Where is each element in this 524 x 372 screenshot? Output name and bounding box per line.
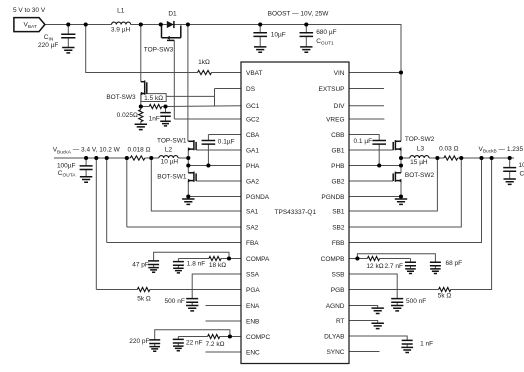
svg-text:680 µF: 680 µF bbox=[316, 29, 336, 36]
svg-text:0.018 Ω: 0.018 Ω bbox=[128, 147, 151, 154]
svg-text:ENB: ENB bbox=[246, 318, 259, 325]
svg-text:BOOST — 10V, 25W: BOOST — 10V, 25W bbox=[268, 10, 330, 17]
svg-text:1.8 nF: 1.8 nF bbox=[187, 260, 205, 267]
svg-text:FBB: FBB bbox=[332, 240, 345, 247]
svg-text:18 kΩ: 18 kΩ bbox=[209, 262, 226, 269]
svg-text:SSB: SSB bbox=[331, 271, 344, 278]
svg-text:GB2: GB2 bbox=[331, 178, 344, 185]
svg-text:500 nF: 500 nF bbox=[406, 298, 426, 305]
svg-text:BOT-SW2: BOT-SW2 bbox=[405, 172, 435, 179]
svg-text:D1: D1 bbox=[168, 11, 177, 18]
svg-text:1nF: 1nF bbox=[149, 116, 160, 123]
svg-text:220 µF: 220 µF bbox=[38, 42, 58, 49]
svg-text:CBB: CBB bbox=[331, 132, 344, 139]
svg-text:PGNDB: PGNDB bbox=[321, 194, 344, 201]
svg-text:VBAT: VBAT bbox=[246, 70, 263, 77]
svg-text:TOP-SW1: TOP-SW1 bbox=[157, 138, 187, 145]
svg-text:TOP-SW3: TOP-SW3 bbox=[144, 46, 174, 53]
svg-text:1 nF: 1 nF bbox=[420, 340, 433, 347]
svg-text:GA2: GA2 bbox=[246, 178, 259, 185]
svg-text:VIN: VIN bbox=[334, 70, 345, 77]
svg-text:3.9 µH: 3.9 µH bbox=[111, 27, 131, 34]
svg-text:GC1: GC1 bbox=[246, 103, 260, 110]
svg-text:TOP-SW2: TOP-SW2 bbox=[405, 136, 435, 143]
svg-text:SSA: SSA bbox=[246, 271, 260, 278]
svg-text:SYNC: SYNC bbox=[326, 349, 344, 356]
svg-text:10µF: 10µF bbox=[519, 162, 524, 169]
svg-text:5k Ω: 5k Ω bbox=[438, 293, 452, 300]
svg-text:5k Ω: 5k Ω bbox=[137, 295, 151, 302]
svg-text:68 pF: 68 pF bbox=[446, 260, 463, 267]
svg-text:SB1: SB1 bbox=[332, 208, 345, 215]
svg-text:CBA: CBA bbox=[246, 132, 260, 139]
svg-text:COMPA: COMPA bbox=[246, 256, 270, 263]
svg-text:5 V to 30 V: 5 V to 30 V bbox=[13, 7, 46, 14]
svg-text:BOT-SW3: BOT-SW3 bbox=[106, 94, 136, 101]
svg-text:COMPC: COMPC bbox=[246, 334, 271, 341]
svg-text:1kΩ: 1kΩ bbox=[198, 59, 210, 66]
svg-text:BOT-SW1: BOT-SW1 bbox=[157, 173, 187, 180]
svg-text:PGNDA: PGNDA bbox=[246, 194, 270, 201]
svg-text:1.5 kΩ: 1.5 kΩ bbox=[144, 95, 163, 102]
svg-text:DIV: DIV bbox=[334, 103, 346, 110]
svg-text:10µF: 10µF bbox=[271, 31, 286, 38]
svg-text:L1: L1 bbox=[117, 7, 125, 14]
svg-text:GB1: GB1 bbox=[331, 147, 344, 154]
svg-text:0.1µF: 0.1µF bbox=[218, 138, 235, 145]
svg-text:DLYAB: DLYAB bbox=[324, 333, 344, 340]
svg-text:PGA: PGA bbox=[246, 287, 260, 294]
svg-text:L3: L3 bbox=[417, 146, 425, 153]
svg-text:7.2 kΩ: 7.2 kΩ bbox=[206, 341, 225, 348]
svg-text:2.7 nF: 2.7 nF bbox=[385, 263, 403, 270]
svg-text:22 nF: 22 nF bbox=[186, 339, 203, 346]
svg-text:GC2: GC2 bbox=[246, 116, 260, 123]
svg-text:500 nF: 500 nF bbox=[165, 298, 185, 305]
svg-text:L2: L2 bbox=[165, 147, 173, 154]
svg-text:100µF: 100µF bbox=[57, 163, 76, 170]
svg-text:PHA: PHA bbox=[246, 163, 260, 170]
svg-text:12 kΩ: 12 kΩ bbox=[366, 263, 383, 270]
svg-text:TPS43337-Q1: TPS43337-Q1 bbox=[275, 209, 317, 216]
svg-text:ENC: ENC bbox=[246, 349, 260, 356]
svg-text:VREG: VREG bbox=[326, 116, 344, 123]
svg-text:GA1: GA1 bbox=[246, 147, 259, 154]
svg-text:0.025Ω: 0.025Ω bbox=[117, 112, 138, 119]
svg-text:AGND: AGND bbox=[326, 303, 345, 310]
svg-text:SA2: SA2 bbox=[246, 224, 259, 231]
svg-text:DS: DS bbox=[246, 86, 256, 93]
svg-text:10 µH: 10 µH bbox=[161, 159, 179, 166]
svg-text:PGB: PGB bbox=[331, 287, 345, 294]
svg-text:COMPB: COMPB bbox=[321, 256, 345, 263]
svg-text:SB2: SB2 bbox=[332, 224, 345, 231]
svg-text:15 µH: 15 µH bbox=[410, 159, 428, 166]
svg-text:ENA: ENA bbox=[246, 303, 260, 310]
svg-text:SA1: SA1 bbox=[246, 208, 259, 215]
svg-text:0.03 Ω: 0.03 Ω bbox=[439, 146, 458, 153]
svg-text:EXTSUP: EXTSUP bbox=[318, 86, 344, 93]
svg-text:220 pF: 220 pF bbox=[129, 338, 149, 345]
svg-text:47 pF: 47 pF bbox=[132, 261, 149, 268]
svg-text:PHB: PHB bbox=[331, 163, 344, 170]
svg-text:FBA: FBA bbox=[246, 240, 259, 247]
svg-text:0.1 µF: 0.1 µF bbox=[354, 138, 373, 145]
svg-text:RT: RT bbox=[336, 318, 345, 325]
